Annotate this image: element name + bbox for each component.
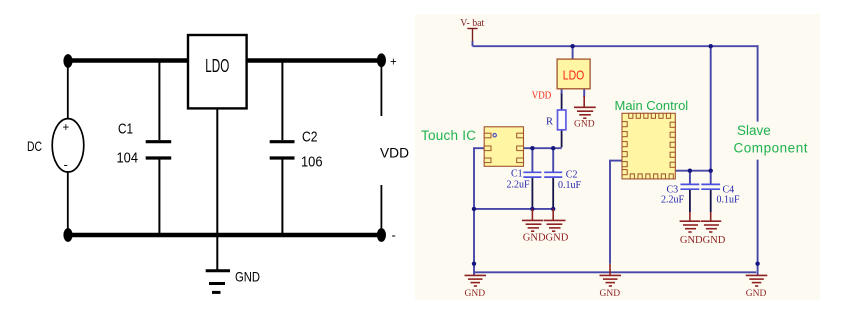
- svg-text:C1: C1: [511, 169, 523, 180]
- svg-text:DC: DC: [27, 138, 42, 154]
- svg-text:0.1uF: 0.1uF: [558, 180, 582, 191]
- svg-text:R: R: [546, 117, 553, 128]
- svg-text:LDO: LDO: [205, 56, 229, 76]
- svg-text:GND: GND: [574, 119, 595, 129]
- svg-text:2.2uF: 2.2uF: [661, 195, 685, 206]
- svg-text:LDO: LDO: [563, 69, 585, 83]
- svg-text:V- bat: V- bat: [460, 18, 484, 29]
- svg-text:Slave: Slave: [737, 123, 771, 138]
- svg-text:GNDGND: GNDGND: [680, 235, 726, 246]
- svg-text:VDD: VDD: [380, 145, 409, 161]
- svg-text:GND: GND: [465, 289, 486, 299]
- svg-text:-: -: [64, 157, 68, 172]
- svg-text:2.2uF: 2.2uF: [507, 180, 531, 191]
- svg-text:VDD: VDD: [532, 91, 552, 102]
- svg-text:-: -: [392, 228, 396, 243]
- svg-text:C1: C1: [118, 122, 133, 138]
- svg-text:106: 106: [301, 155, 323, 171]
- svg-text:+: +: [390, 57, 397, 69]
- svg-text:0.1uF: 0.1uF: [717, 195, 741, 206]
- svg-text:GNDGND: GNDGND: [523, 232, 569, 243]
- svg-text:Touch IC: Touch IC: [421, 128, 476, 143]
- svg-text:Main Control: Main Control: [615, 98, 689, 113]
- svg-text:GND: GND: [600, 289, 621, 299]
- svg-text:Component: Component: [734, 141, 808, 156]
- svg-text:104: 104: [117, 151, 139, 167]
- svg-text:GND: GND: [235, 269, 260, 285]
- svg-text:+: +: [63, 122, 70, 134]
- svg-text:GND: GND: [746, 289, 767, 299]
- svg-text:C2: C2: [302, 130, 318, 146]
